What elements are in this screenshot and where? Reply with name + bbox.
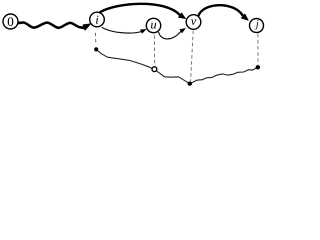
thin arc i to u (head) [140,29,146,33]
dashed projection line from i [94,33,97,45]
state node i (circle) [90,12,105,27]
wavy arrow 0 to i (shaft) [17,23,85,29]
bottom jagged path segment: dot(i) to open circle [96,49,152,68]
dashed projection line from v [191,31,194,81]
thin arc i to u (shaft) [102,27,141,33]
state node 0 (circle) [3,14,18,29]
state node j (label) [255,20,259,29]
thick arc v to j (head) [241,14,248,21]
state node v (label) [191,19,196,25]
state node u (circle) [146,18,160,32]
dashed projection line from j [257,34,259,65]
open circle below u [152,67,157,72]
bottom jagged path segment: open circle to dot(v) [156,71,190,84]
filled dot below v [188,81,192,85]
wavy arrow 0 to i (head) [83,24,91,31]
state node 0 (label) [8,17,14,26]
state node j (circle) [250,19,264,33]
dashed projection line from u [153,35,155,66]
filled dot below j [256,65,260,69]
thick arc i to v (shaft) [100,4,180,15]
thick arc i to v (head) [178,13,186,19]
thick arc v to j (shaft) [198,5,243,16]
state node v (circle) [186,15,201,30]
thin arc u to v (head) [180,28,186,33]
state node u (label) [151,23,156,29]
thin arc u to v (shaft) [159,31,181,39]
state node i (label) [96,16,98,24]
bottom jagged path segment: dot(v) to dot(j) [190,67,258,83]
filled dot below i [94,47,98,51]
